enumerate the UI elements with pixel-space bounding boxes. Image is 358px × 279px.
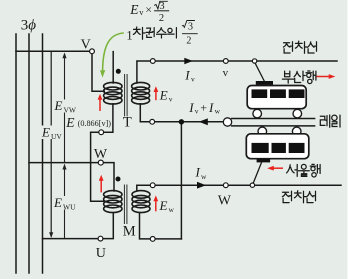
red emf arrow T primary xyxy=(98,94,103,111)
rail track double line bottom xyxy=(232,125,315,127)
wire V node to T primary tap xyxy=(92,54,104,91)
rail wheel circle xyxy=(223,118,231,126)
wire common return vertical xyxy=(180,122,182,239)
label E(0.866V) xyxy=(65,115,111,130)
svg-text:w: w xyxy=(169,205,175,214)
wire M secondary bottom lead xyxy=(140,213,151,239)
wire U feeder xyxy=(43,238,99,240)
node U terminal circle xyxy=(98,236,103,241)
node W terminal circle xyxy=(98,160,103,165)
node M secondary top circle xyxy=(150,183,155,188)
transformer T polarity dot xyxy=(116,69,121,74)
red emf arrow M primary xyxy=(99,175,104,193)
svg-text:W: W xyxy=(94,147,108,162)
3-phase bus line 1 xyxy=(15,34,17,273)
train 1 pantograph pole xyxy=(255,63,265,82)
word san (Busan) xyxy=(294,71,305,82)
word seon (lower catenary) xyxy=(307,191,316,202)
svg-text:W: W xyxy=(218,194,232,209)
svg-text:2: 2 xyxy=(186,35,191,46)
train 2 windows xyxy=(252,143,269,153)
current arrow Iv+Iw on rail pointing left xyxy=(199,118,208,125)
svg-text:UV: UV xyxy=(51,132,62,141)
svg-text:M: M xyxy=(123,224,136,240)
svg-text:v: v xyxy=(139,7,144,17)
node T secondary bottom circle xyxy=(150,119,155,124)
svg-text:w: w xyxy=(215,107,221,116)
svg-text:I: I xyxy=(208,100,214,115)
catenary node W circle xyxy=(223,183,228,188)
svg-text:U: U xyxy=(96,246,106,261)
svg-text:E: E xyxy=(65,115,75,130)
catenary feed circle lower xyxy=(250,183,254,187)
word cha (lower catenary) xyxy=(294,191,306,203)
word ui xyxy=(168,28,177,38)
transformer M core xyxy=(124,185,127,225)
catenary node v circle xyxy=(223,59,228,64)
svg-text:2: 2 xyxy=(159,13,164,24)
svg-text:I: I xyxy=(184,68,190,83)
svg-text:w: w xyxy=(201,172,207,181)
svg-text:×: × xyxy=(145,3,152,17)
word haeng (Busan) xyxy=(306,71,316,84)
word jeon (lower catenary) xyxy=(282,191,291,202)
word ul (Seoul) xyxy=(299,164,310,176)
svg-text:V: V xyxy=(81,37,91,52)
svg-text:WU: WU xyxy=(63,203,76,212)
measure arrow E_WU xyxy=(62,164,66,238)
wire upper catenary from T secondary xyxy=(155,60,337,62)
svg-text:E: E xyxy=(54,98,63,113)
svg-text:v: v xyxy=(223,67,229,79)
svg-text:v: v xyxy=(195,107,199,116)
transformer M polarity dot xyxy=(116,177,121,182)
transformer M secondary winding xyxy=(132,191,150,213)
node M secondary bottom circle xyxy=(150,237,155,242)
word re (rail) xyxy=(320,115,329,127)
wire lower catenary from M secondary xyxy=(155,184,341,186)
word haeng (Seoul) xyxy=(310,164,320,177)
transformer M primary winding xyxy=(104,191,122,213)
current arrow Iw on lower catenary xyxy=(197,182,206,189)
red arrow to Busan xyxy=(317,74,336,79)
svg-text:E: E xyxy=(41,125,50,140)
node V terminal circle xyxy=(90,49,95,54)
svg-text:E: E xyxy=(159,198,168,213)
svg-text:I: I xyxy=(195,165,201,180)
svg-text:(0.866[v]): (0.866[v]) xyxy=(78,119,112,128)
svg-text:+: + xyxy=(200,101,207,115)
wire T primary top stub xyxy=(112,52,114,83)
junction dot rail xyxy=(179,119,184,124)
red arrow to Seoul xyxy=(267,166,283,171)
wire W feeder xyxy=(29,162,98,164)
catenary feed circle upper xyxy=(252,59,256,63)
current arrow Iv on upper catenary xyxy=(184,58,193,65)
node T primary tap circle xyxy=(99,130,104,135)
word jeon (top catenary) xyxy=(283,42,292,53)
word seo (Seoul) xyxy=(287,165,298,177)
measure arrow E_UV xyxy=(49,52,53,238)
wire rail return single xyxy=(155,121,224,123)
train 2 pantograph bar xyxy=(257,159,271,163)
word seon (top catenary) xyxy=(308,42,317,53)
word su xyxy=(157,28,167,38)
formula Ev x sqrt3/2 xyxy=(129,1,169,24)
svg-text:E: E xyxy=(159,88,168,103)
wire M primary bottom to U node xyxy=(103,213,113,239)
transformer T secondary winding xyxy=(132,82,150,104)
wire T primary bottom to tap node xyxy=(104,104,113,132)
word cha (1cha) xyxy=(133,27,145,39)
train 1 pantograph bar xyxy=(256,81,273,85)
svg-text:I: I xyxy=(188,100,194,115)
3-phase bus line 3 xyxy=(42,34,44,273)
train 1 wheels xyxy=(253,109,262,118)
word bu (Busan) xyxy=(282,71,294,83)
label E_WU xyxy=(53,195,78,212)
red emf arrow Ew secondary xyxy=(153,195,158,211)
wire T secondary top lead xyxy=(137,61,151,83)
label E_UV xyxy=(41,125,62,142)
node T secondary top circle xyxy=(150,59,155,64)
wire T secondary bottom lead xyxy=(140,104,150,122)
rail track double line top xyxy=(232,118,315,120)
svg-text:3ϕ: 3ϕ xyxy=(21,17,37,33)
train 2 wheels xyxy=(258,127,267,136)
svg-text:v: v xyxy=(191,75,195,84)
train 2 body xyxy=(246,134,308,159)
word gwon xyxy=(146,28,154,38)
svg-text:T: T xyxy=(123,114,132,130)
word il (rail) xyxy=(332,115,340,127)
wire M secondary top lead xyxy=(137,185,151,191)
train 2 pantograph pole xyxy=(253,162,261,183)
train 1 body xyxy=(247,86,306,109)
wire W node to M primary top xyxy=(103,163,114,191)
HANGUL (hand drawn) xyxy=(133,27,340,203)
svg-text:E: E xyxy=(129,2,139,17)
svg-text:E: E xyxy=(53,195,62,210)
wire M secondary bottom to junction xyxy=(155,238,181,240)
svg-text:v: v xyxy=(169,95,173,104)
measure arrow E_VW xyxy=(62,53,66,163)
3-phase bus line 2 xyxy=(28,34,30,273)
green annotation arrow to T primary turns xyxy=(103,33,124,71)
word cha (top catenary) xyxy=(295,41,307,53)
svg-text:3: 3 xyxy=(188,21,193,32)
wire tap node to M primary center tap xyxy=(91,132,109,201)
label E_VW xyxy=(54,98,77,115)
train 1 windows xyxy=(252,89,268,98)
transformer T core xyxy=(125,74,128,116)
svg-text:VW: VW xyxy=(64,106,77,115)
svg-text:1: 1 xyxy=(126,28,132,42)
annotation turns sqrt3/2 fraction xyxy=(182,21,198,47)
transformer T primary winding xyxy=(104,82,122,104)
red emf arrow Ev secondary xyxy=(154,86,159,100)
wire V feeder xyxy=(16,50,90,52)
